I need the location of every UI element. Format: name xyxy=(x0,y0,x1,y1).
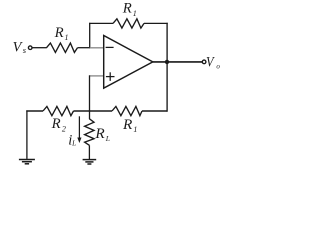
label Vo xyxy=(206,55,220,71)
resistor R1 bottom zigzag xyxy=(112,106,142,115)
svg-text:V: V xyxy=(13,39,24,55)
wire top rail right segment xyxy=(144,22,168,24)
wire Vs to R1 input xyxy=(32,47,47,49)
wire left ground drop xyxy=(26,110,28,158)
label RL xyxy=(94,126,110,143)
svg-text:2: 2 xyxy=(62,124,66,133)
svg-text:L: L xyxy=(105,134,110,143)
terminal Vo xyxy=(202,60,206,64)
label iL xyxy=(68,132,76,148)
svg-text:s: s xyxy=(23,45,27,55)
wire cross node down to RL xyxy=(89,110,91,119)
gray lead to inverting input xyxy=(90,47,104,49)
wire R1 bottom to right vertical xyxy=(142,110,167,112)
svg-text:1: 1 xyxy=(133,125,137,134)
svg-text:L: L xyxy=(71,140,76,148)
op-amp minus sign xyxy=(106,46,114,48)
label R1 input xyxy=(54,25,69,42)
svg-text:o: o xyxy=(216,62,220,70)
ground left xyxy=(19,160,35,164)
ground right xyxy=(83,160,97,164)
op-amp U1 triangle xyxy=(104,36,153,89)
label Vs xyxy=(13,39,27,55)
svg-text:R: R xyxy=(122,1,132,17)
label R1 feedback xyxy=(122,1,137,18)
gray lead to non-inverting input xyxy=(90,75,104,77)
svg-text:R: R xyxy=(94,126,104,142)
resistor R2 zigzag xyxy=(43,106,74,115)
wire top rail left segment xyxy=(89,22,113,24)
wire right vertical from top rail to bottom rail xyxy=(166,23,168,112)
wire R2 to center cross node xyxy=(74,110,113,112)
svg-text:R: R xyxy=(51,116,61,132)
op-amp plus sign xyxy=(106,72,115,81)
label R1 bottom xyxy=(122,117,137,134)
svg-text:V: V xyxy=(206,55,215,71)
wire op-amp output xyxy=(153,61,203,63)
wire node up to feedback rail xyxy=(89,23,91,49)
svg-text:1: 1 xyxy=(65,33,69,42)
junction dot output node xyxy=(165,60,169,64)
wire bottom rail left segment xyxy=(26,110,43,112)
svg-text:1: 1 xyxy=(133,9,137,18)
terminal Vs xyxy=(28,46,32,50)
resistor R1 feedback zigzag xyxy=(113,19,144,28)
resistor RL vertical zigzag xyxy=(85,119,94,146)
wire from plus corner down to bottom rail xyxy=(89,75,91,111)
wire R1 to inverting node xyxy=(78,47,91,49)
current arrow iL xyxy=(77,116,81,143)
resistor R1 input zigzag xyxy=(47,43,78,52)
svg-text:R: R xyxy=(54,25,64,41)
wire RL to ground xyxy=(88,145,90,159)
label R2 xyxy=(51,116,66,133)
svg-text:R: R xyxy=(122,117,132,133)
